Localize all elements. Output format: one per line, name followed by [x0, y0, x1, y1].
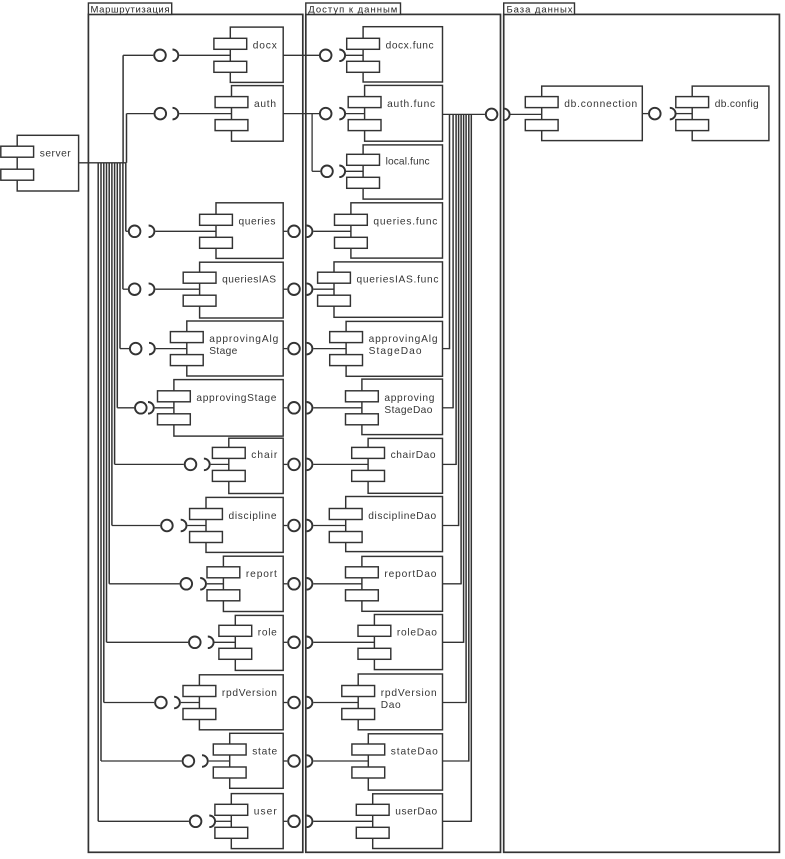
- svg-text:queries: queries: [239, 217, 276, 228]
- svg-text:db.connection: db.connection: [564, 99, 637, 110]
- svg-text:stateDao: stateDao: [391, 746, 438, 757]
- svg-text:chairDao: chairDao: [391, 450, 436, 461]
- svg-text:userDao: userDao: [395, 807, 437, 818]
- svg-text:disciplineDao: disciplineDao: [368, 511, 436, 522]
- svg-text:user: user: [254, 807, 278, 818]
- svg-text:auth.func: auth.func: [387, 99, 435, 110]
- svg-text:approvingStage: approvingStage: [196, 393, 276, 404]
- svg-text:chair: chair: [251, 450, 278, 461]
- svg-text:Маршрутизация: Маршрутизация: [91, 5, 170, 16]
- svg-text:db.config: db.config: [715, 99, 759, 110]
- svg-text:StageDao: StageDao: [369, 346, 422, 357]
- svg-text:report: report: [246, 569, 277, 580]
- svg-text:Stage: Stage: [209, 346, 237, 357]
- svg-text:rpdVersion: rpdVersion: [381, 688, 437, 699]
- svg-text:approvingAlg: approvingAlg: [209, 334, 278, 345]
- svg-text:rpdVersion: rpdVersion: [222, 688, 277, 699]
- svg-text:Dao: Dao: [381, 700, 401, 711]
- svg-text:role: role: [258, 628, 277, 639]
- svg-text:auth: auth: [254, 99, 276, 110]
- svg-text:База данных: База данных: [507, 5, 573, 16]
- svg-text:server: server: [40, 149, 72, 160]
- svg-text:roleDao: roleDao: [397, 628, 437, 639]
- svg-text:local.func: local.func: [386, 157, 430, 168]
- svg-text:approving: approving: [384, 393, 434, 404]
- svg-text:docx.func: docx.func: [386, 41, 434, 52]
- svg-text:StageDao: StageDao: [384, 405, 432, 416]
- svg-text:Доступ к данным: Доступ к данным: [308, 5, 397, 16]
- svg-text:docx: docx: [253, 41, 277, 52]
- svg-text:approvingAlg: approvingAlg: [369, 334, 438, 345]
- svg-text:queriesIAS.func: queriesIAS.func: [357, 275, 439, 286]
- svg-text:reportDao: reportDao: [384, 569, 436, 580]
- svg-text:queriesIAS: queriesIAS: [222, 275, 276, 286]
- svg-text:queries.func: queries.func: [373, 217, 437, 228]
- svg-text:state: state: [252, 746, 277, 757]
- svg-text:discipline: discipline: [229, 511, 277, 522]
